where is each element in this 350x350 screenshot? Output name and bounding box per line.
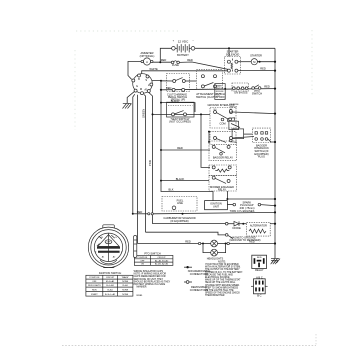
- bagger interlock plug: [252, 128, 270, 159]
- oss switch on row 88: [224, 83, 248, 94]
- bus M vertical x137.5: [137, 95, 139, 244]
- seat switch: [167, 102, 195, 123]
- svg-text:SHOULD BE REPLACED AS THEY: SHOULD BE REPLACED AS THEY: [134, 280, 171, 283]
- svg-text:FUSE: FUSE: [172, 63, 179, 67]
- svg-text:RED: RED: [177, 146, 183, 150]
- bus x145.5: [144, 95, 146, 233]
- svg-text:(IF EQUIPPED): (IF EQUIPPED): [170, 219, 188, 223]
- wire solenoid to starter: [238, 61, 251, 63]
- svg-text:B+L+A1: B+L+A1: [106, 284, 114, 287]
- svg-text:YOUR TRACTOR IS EQUIPPED: YOUR TRACTOR IS EQUIPPED: [205, 263, 239, 266]
- mower engaged relay K3: [209, 175, 237, 191]
- relay row wire y150: [161, 149, 210, 151]
- svg-text:B: B: [138, 77, 140, 81]
- svg-text:SWITCH (CLUTCH OFF): SWITCH (CLUTCH OFF): [196, 95, 225, 99]
- bus x160 from switch L: [152, 81, 213, 201]
- diode D1: [225, 221, 246, 230]
- row y180.6 wire to relay K3: [161, 180, 209, 182]
- svg-text:BAGGER RELAY: BAGGER RELAY: [213, 156, 233, 160]
- svg-text:A1+A2, B1+B2: A1+A2, B1+B2: [155, 259, 169, 262]
- ignition unit U1: [205, 201, 228, 210]
- svg-text:POSITION: POSITION: [89, 277, 99, 279]
- svg-text:S: S: [145, 78, 147, 82]
- alternator: [247, 222, 271, 236]
- svg-text:BLK: BLK: [169, 188, 174, 192]
- wire battery negative to right bus: [195, 47, 275, 49]
- svg-text:CIRCUIT: CIRCUIT: [106, 277, 115, 279]
- bus x152.5 to diode row: [149, 93, 226, 224]
- wire ignition switch G to ground: [127, 92, 134, 103]
- wire solenoid lower to right bus: [238, 70, 275, 72]
- relay pinout box: [252, 255, 267, 272]
- svg-text:SWITCH: SWITCH: [230, 106, 238, 108]
- wire relay column to bus y199: [227, 191, 275, 199]
- headlight lamp 1: [211, 240, 218, 247]
- svg-text:PTO SWITCH: PTO SWITCH: [144, 252, 160, 256]
- magneto ground row: [146, 232, 226, 235]
- wiring insulator clips note: [134, 270, 171, 288]
- svg-text:RED: RED: [260, 66, 266, 70]
- svg-text:NOTE: IF WIRING INSULATOR: NOTE: IF WIRING INSULATOR: [134, 273, 167, 276]
- svg-text:MANNER.: MANNER.: [137, 285, 148, 288]
- wire white row ignition B to solenoid: [142, 71, 228, 74]
- wire microswitch2 to bagger plug: [233, 137, 255, 139]
- svg-text:ON B+OSS: ON B+OSS: [234, 90, 248, 94]
- ground at bottom of right bus: [271, 259, 280, 264]
- svg-text:MAKE UP OF THE THERMOSTAT: MAKE UP OF THE THERMOSTAT: [205, 279, 241, 282]
- svg-text:B+S+L+A1: B+S+L+A1: [105, 293, 116, 296]
- microswitch MS1: [207, 103, 236, 128]
- key side view: [134, 236, 137, 258]
- svg-text:M: M: [253, 60, 255, 64]
- carburetor solenoid row: [132, 213, 134, 215]
- svg-text:ELECTRICAL SOURCE: ELECTRICAL SOURCE: [205, 276, 230, 279]
- svg-text:POSITION: POSITION: [138, 257, 148, 259]
- wire ammeter left to ignition switch B: [128, 62, 141, 80]
- svg-text:BATTERY: BATTERY: [177, 53, 189, 57]
- headlight lamp 2 branch: [203, 244, 211, 253]
- wire fuse to starter solenoid (diagonal): [179, 62, 227, 71]
- svg-text:GREEN: GREEN: [141, 109, 145, 118]
- svg-text:SMART: SMART: [216, 85, 223, 88]
- bus x132.8 to carburetor row: [133, 94, 135, 214]
- relay K2 coil: [209, 165, 237, 175]
- svg-text:RED: RED: [161, 58, 167, 62]
- svg-text:LINE: LINE: [177, 201, 183, 205]
- legend removable connector: [184, 281, 208, 292]
- svg-text:DIODE: DIODE: [232, 226, 240, 230]
- wire starter to right bus: [257, 61, 275, 63]
- svg-text:A: A: [146, 60, 148, 64]
- starter M1: [250, 53, 262, 64]
- ground near relay pinout: [271, 260, 278, 264]
- svg-text:"MAKE": "MAKE": [122, 276, 130, 279]
- svg-text:RED: RED: [264, 84, 270, 88]
- svg-text:WHITE: WHITE: [149, 67, 158, 71]
- spark plug row: [227, 200, 276, 212]
- svg-text:OFF: OFF: [92, 281, 97, 283]
- seat switch row wire: [153, 113, 211, 115]
- svg-text:ALTERNATOR: ALTERNATOR: [250, 223, 267, 227]
- svg-text:12 VDC: 12 VDC: [178, 40, 189, 44]
- junction battery+ on fuse row: [159, 61, 161, 63]
- legend non-removable connector: [184, 266, 211, 276]
- connector pinout box ABC: [251, 275, 268, 297]
- svg-text:TWIN CYL ENGINES: TWIN CYL ENGINES: [230, 209, 255, 213]
- wire microswitch1 to ros stack: [233, 112, 276, 114]
- svg-text:CIRCUIT: CIRCUIT: [158, 257, 167, 259]
- svg-text:A1+B1, A2+B2: A1+B1, A2+B2: [155, 263, 169, 266]
- svg-text:RUN LIGHTS: RUN LIGHTS: [88, 285, 101, 287]
- carburetor solenoid: [162, 197, 197, 224]
- module text box right of attachment clutch: [215, 84, 225, 100]
- svg-text:BLACK: BLACK: [176, 177, 185, 181]
- wire bagger plug to bus: [268, 139, 275, 142]
- fuse F1: [171, 61, 179, 67]
- row y102.6 wire: [161, 103, 195, 112]
- battery BAT1: [172, 40, 195, 58]
- svg-text:R+A1: R+A1: [123, 284, 129, 287]
- svg-text:RUN: RUN: [92, 289, 97, 291]
- svg-text:SWITCH: SWITCH: [252, 91, 262, 95]
- starter solenoid: [225, 50, 241, 74]
- svg-text:B+A1: B+A1: [108, 288, 114, 291]
- ammeter A (optional): [140, 51, 155, 65]
- svg-text:B C: B C: [257, 293, 261, 297]
- wire battery feed to solenoid stud: [228, 48, 230, 56]
- svg-text:(GROUND TO RETAINER): (GROUND TO RETAINER): [229, 238, 260, 242]
- svg-text:SOLENOID: SOLENOID: [226, 52, 240, 56]
- pto switch on row 88: [252, 85, 262, 96]
- svg-text:START: START: [91, 293, 98, 296]
- ignition switch S1: [132, 74, 153, 95]
- svg-text:UNIT: UNIT: [213, 205, 219, 209]
- wire ammeter to fuse row: [153, 61, 171, 63]
- svg-text:RED: RED: [185, 239, 191, 243]
- vertical link x209: [208, 132, 210, 142]
- svg-text:A1: A1: [144, 87, 148, 91]
- right bus vertical: [274, 48, 276, 258]
- svg-text:M: M: [140, 87, 142, 91]
- interlock row y89.6 wire: [161, 89, 275, 90]
- svg-text:NONE: NONE: [122, 289, 129, 291]
- svg-text:NONE: NONE: [122, 294, 129, 296]
- svg-text:PLUG: PLUG: [258, 155, 265, 159]
- wire row y81 from bus: [161, 80, 173, 82]
- svg-text:STARTER: STARTER: [250, 53, 262, 57]
- svg-text:THEIR BRIGHTER.: THEIR BRIGHTER.: [205, 295, 225, 297]
- vertical green wire label: [141, 109, 152, 166]
- svg-text:THE OUTPUT OF THE BATTERY: THE OUTPUT OF THE BATTERY: [205, 268, 240, 271]
- svg-text:86 85: 86 85: [257, 257, 262, 259]
- note paragraph: [205, 259, 243, 297]
- wire alternator to bus: [270, 223, 275, 225]
- svg-text:BECAUSE THE FUEL AND: BECAUSE THE FUEL AND: [205, 273, 233, 276]
- attachment clutch switch: [196, 70, 225, 99]
- vertical link x201: [201, 114, 210, 167]
- svg-text:(OPTIONAL): (OPTIONAL): [140, 54, 155, 58]
- svg-text:928B1: 928B1: [136, 295, 143, 297]
- svg-text:RED: RED: [187, 58, 193, 62]
- ground at ignition switch: [123, 104, 132, 109]
- svg-text:WITH AN ALTERNATOR SYSTEM.: WITH AN ALTERNATOR SYSTEM.: [205, 266, 241, 269]
- wire battery positive drop: [160, 48, 171, 62]
- bagger relay K1: [209, 141, 237, 161]
- ignition switch table: [86, 271, 143, 297]
- svg-text:HEAD UP THE LIGHTS WILL: HEAD UP THE LIGHTS WILL: [205, 281, 236, 284]
- microswitch MS2: [210, 132, 236, 145]
- ros stack assembly: [227, 104, 252, 144]
- svg-text:RELAY: RELAY: [218, 188, 227, 192]
- svg-text:RELAY: RELAY: [255, 268, 264, 272]
- svg-text:NOTE:: NOTE:: [218, 259, 226, 263]
- svg-text:CHANGE WITH ENGINE SPEED.: CHANGE WITH ENGINE SPEED.: [205, 284, 240, 287]
- svg-text:IGNITION SWITCH: IGNITION SWITCH: [99, 271, 122, 275]
- svg-text:(NOT OCCUPIED): (NOT OCCUPIED): [169, 120, 191, 124]
- svg-text:RED: RED: [249, 239, 255, 243]
- pto switch table: [134, 252, 173, 266]
- headlights row: [138, 243, 199, 245]
- clutch/brake pedal switch: [167, 74, 190, 102]
- svg-text:SYSTEM IS D.C. TO THE BATTERY.: SYSTEM IS D.C. TO THE BATTERY.: [205, 271, 243, 274]
- svg-text:WIRING INSULATOR CLIPS: WIRING INSULATOR CLIPS: [134, 270, 164, 273]
- svg-text:NONE: NONE: [122, 281, 129, 283]
- svg-text:PINK: PINK: [148, 160, 152, 166]
- svg-text:M+G+A1: M+G+A1: [106, 280, 115, 283]
- key switch connector face: [88, 225, 128, 268]
- svg-text:RED: RED: [137, 210, 143, 214]
- svg-text:COM: COM: [219, 122, 225, 126]
- svg-text:G: G: [136, 84, 138, 88]
- inner triangle detail: [98, 235, 119, 247]
- dark terminal bars: [97, 247, 120, 253]
